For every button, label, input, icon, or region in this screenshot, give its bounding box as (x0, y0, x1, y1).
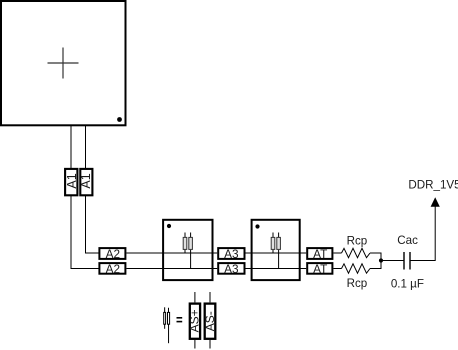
component outline right (series element body) (252, 220, 300, 280)
resistor Rcp (bottom) (342, 264, 371, 273)
svg-text:Cac: Cac (397, 234, 418, 247)
wire: vertical from package to lower bus (71, 126, 99, 269)
svg-text:A1: A1 (79, 173, 93, 188)
wire: upper bus A3 to AT (246, 252, 307, 254)
wire: AT to bottom resistor (333, 268, 341, 270)
junction dot at resistor merge (379, 258, 383, 262)
svg-text:A2: A2 (106, 262, 120, 276)
pad A2 (top) (99, 247, 125, 261)
svg-text:AS-: AS- (203, 311, 217, 331)
svg-text:DDR_1V5: DDR_1V5 (408, 179, 458, 192)
component outline left (series element body) (163, 220, 212, 280)
pad AT (top) (307, 247, 332, 261)
svg-text:Rcp: Rcp (347, 277, 368, 290)
package center crosshair (48, 48, 79, 79)
capacitor Cac (404, 252, 410, 270)
wire: top resistor to merge point (370, 253, 381, 261)
svg-text:AT: AT (313, 247, 327, 261)
equals sign (177, 318, 183, 322)
wire: lower bus A2 to A3 (126, 268, 217, 270)
wire: upper bus A2 to A3 (126, 252, 217, 254)
pin-1 dot of right component (255, 224, 259, 228)
DDR memory package outline (1, 1, 126, 125)
pad A1 (left) (65, 169, 79, 195)
svg-text:A3: A3 (224, 247, 239, 261)
svg-text:0.1 µF: 0.1 µF (391, 277, 424, 290)
pad A3 (top) (218, 247, 244, 261)
legend series element symbol (164, 307, 170, 343)
pad AT (bottom) (307, 262, 332, 276)
wire: vertical from package to upper bus (86, 126, 100, 253)
wire below pad AS- (209, 340, 211, 349)
pad A2 (bottom) (99, 262, 125, 276)
series element symbol inside right component (271, 233, 280, 269)
resistor Rcp (top) (342, 248, 371, 257)
pin-1 dot of left component (167, 224, 171, 228)
svg-text:Rcp: Rcp (347, 234, 368, 247)
svg-text:AS+: AS+ (187, 309, 201, 332)
svg-text:A2: A2 (106, 247, 120, 261)
wire: AT to top resistor (333, 252, 341, 254)
power arrow DDR_1V5 (431, 197, 440, 207)
wire below pad AS+ (194, 340, 196, 349)
wire: junction to capacitor Cac (381, 260, 404, 262)
svg-text:A3: A3 (224, 262, 239, 276)
series element symbol inside left component (183, 233, 192, 269)
wire: bottom resistor to merge point (370, 261, 381, 269)
wire above pad AS- (209, 292, 211, 302)
pad A3 (bottom) (218, 262, 244, 276)
pad AS- (203, 304, 217, 339)
wire: capacitor to DDR_1V5 arrow (411, 207, 436, 261)
wire: lower bus A3 to AT (246, 268, 307, 270)
package pin-1 dot (117, 117, 122, 122)
pad AS+ (187, 304, 201, 339)
svg-text:A1: A1 (65, 173, 79, 188)
pad A1 (right) (79, 169, 93, 195)
svg-text:AT: AT (313, 262, 327, 276)
wire above pad AS+ (194, 292, 196, 302)
